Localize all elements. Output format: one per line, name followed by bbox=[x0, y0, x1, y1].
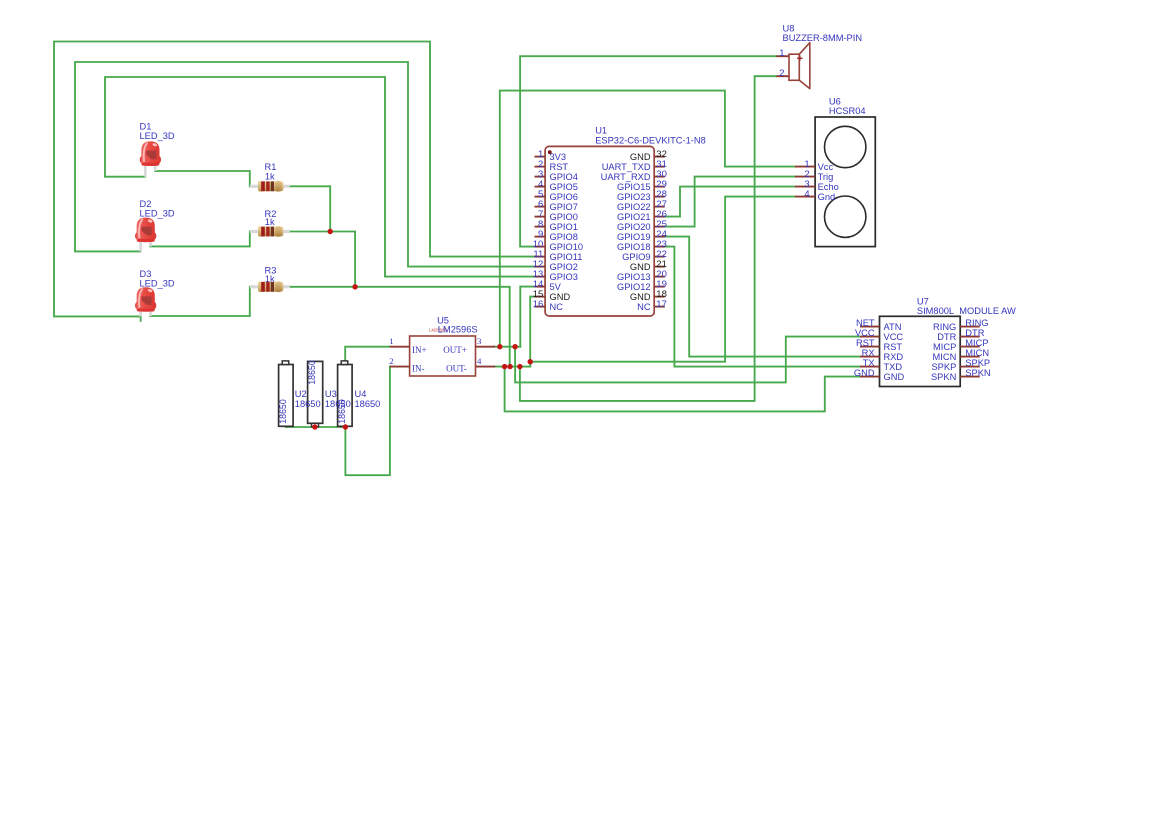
svg-text:U7: U7 bbox=[917, 296, 929, 306]
svg-text:GPIO4: GPIO4 bbox=[550, 172, 578, 182]
svg-text:OUT-: OUT- bbox=[446, 364, 467, 374]
wire 5V rail to HCSR04 Vcc bbox=[500, 91, 795, 347]
junction GND rail / LED common tap bbox=[507, 364, 512, 369]
wire GND rail to HCSR04 Gnd bbox=[530, 197, 795, 362]
svg-text:BUZZER-8MM-PIN: BUZZER-8MM-PIN bbox=[783, 33, 863, 43]
svg-text:SPKN: SPKN bbox=[931, 372, 956, 382]
svg-text:GPIO6: GPIO6 bbox=[550, 192, 578, 202]
svg-text:RING: RING bbox=[965, 318, 988, 328]
svg-text:UART_RXD: UART_RXD bbox=[601, 172, 651, 182]
svg-text:DTR: DTR bbox=[965, 328, 984, 338]
svg-text:SIM800L_MODULE AW: SIM800L_MODULE AW bbox=[917, 306, 1016, 316]
wire OUT- rail (row B) bbox=[494, 366, 530, 368]
LED D1 LED_3D bbox=[140, 122, 175, 177]
svg-text:GPIO3: GPIO3 bbox=[550, 272, 578, 282]
wire OUT+ rail (row A) bbox=[494, 346, 520, 348]
svg-text:MICN: MICN bbox=[933, 352, 957, 362]
svg-text:SPKP: SPKP bbox=[965, 358, 990, 368]
junction 5V rail / SIM800L VCC tap bbox=[512, 344, 517, 349]
svg-text:GPIO15: GPIO15 bbox=[617, 182, 651, 192]
wire D3 anode to GPIO11 (net loop outer) bbox=[54, 42, 535, 317]
LED D3 LED_3D bbox=[135, 269, 175, 322]
svg-text:16: 16 bbox=[533, 299, 544, 310]
svg-text:1: 1 bbox=[389, 336, 393, 346]
wire D2 anode to GPIO2 (net loop middle) bbox=[75, 62, 535, 267]
svg-text:ATN: ATN bbox=[884, 322, 902, 332]
svg-text:18650: 18650 bbox=[278, 399, 288, 424]
wire D2 cathode to R2 bbox=[150, 232, 250, 247]
svg-text:Trig: Trig bbox=[818, 172, 834, 182]
wire D1 anode to GPIO3 (net loop inner) bbox=[105, 77, 535, 277]
junction GND rail / buzzer tap bbox=[517, 364, 522, 369]
junction battery bus / U3 node bbox=[312, 424, 317, 429]
svg-text:OUT+: OUT+ bbox=[443, 345, 467, 355]
battery U4 18650 bbox=[337, 361, 380, 426]
svg-text:U8: U8 bbox=[783, 23, 795, 33]
svg-text:GPIO0: GPIO0 bbox=[550, 212, 578, 222]
module U7 SIM800L_MODULE AW bbox=[854, 296, 1016, 386]
svg-text:D2: D2 bbox=[140, 199, 152, 209]
svg-text:GND: GND bbox=[884, 372, 905, 382]
junction battery bus / U4 node bbox=[343, 424, 348, 429]
svg-text:U3: U3 bbox=[325, 389, 337, 399]
svg-text:U2: U2 bbox=[295, 389, 307, 399]
wire GPIO21 to HCSR04 Echo bbox=[665, 187, 795, 217]
svg-text:NC: NC bbox=[550, 302, 564, 312]
wire LM2596 IN- to battery minus bbox=[345, 367, 390, 476]
svg-text:U1: U1 bbox=[595, 126, 607, 136]
svg-text:DTR: DTR bbox=[937, 332, 956, 342]
svg-text:RST: RST bbox=[856, 338, 875, 348]
svg-text:GPIO1: GPIO1 bbox=[550, 222, 578, 232]
svg-text:SPKP: SPKP bbox=[931, 362, 956, 372]
svg-text:GPIO2: GPIO2 bbox=[550, 262, 578, 272]
svg-text:RING: RING bbox=[933, 322, 956, 332]
resistor R1 1k bbox=[250, 162, 290, 192]
svg-text:GPIO5: GPIO5 bbox=[550, 182, 578, 192]
svg-text:GND: GND bbox=[550, 292, 571, 302]
svg-text:NET: NET bbox=[856, 318, 875, 328]
battery U3 18650 bbox=[307, 360, 351, 427]
svg-text:GPIO8: GPIO8 bbox=[550, 232, 578, 242]
wire 5V pin14 to OUT+ rail bbox=[520, 287, 535, 347]
svg-text:4: 4 bbox=[477, 356, 482, 366]
svg-text:LED_3D: LED_3D bbox=[140, 208, 175, 218]
svg-text:TX: TX bbox=[863, 358, 875, 368]
svg-text:2: 2 bbox=[389, 356, 393, 366]
svg-text:LED_3D: LED_3D bbox=[140, 131, 175, 141]
svg-text:GPIO23: GPIO23 bbox=[617, 192, 651, 202]
svg-text:GPIO10: GPIO10 bbox=[550, 242, 584, 252]
battery U2 18650 bbox=[278, 361, 321, 426]
svg-text:LM2596S: LM2596S bbox=[438, 324, 478, 334]
svg-text:HCSR04: HCSR04 bbox=[829, 106, 866, 116]
wire GPIO18 to SIM800L TXD bbox=[665, 247, 860, 367]
svg-text:GND: GND bbox=[630, 292, 651, 302]
svg-text:GPIO18: GPIO18 bbox=[617, 242, 651, 252]
junction R2/R3 node bbox=[352, 284, 357, 289]
svg-text:5V: 5V bbox=[550, 282, 562, 292]
svg-text:GPIO20: GPIO20 bbox=[617, 222, 651, 232]
wire GPIO19 to SIM800L RXD bbox=[665, 237, 860, 357]
svg-text:IN-: IN- bbox=[412, 364, 425, 374]
svg-text:GPIO19: GPIO19 bbox=[617, 232, 651, 242]
svg-text:UART_TXD: UART_TXD bbox=[602, 162, 651, 172]
wire R3 output / LED common to GND rail bbox=[290, 287, 510, 367]
wire GPIO10 to buzzer pin1 bbox=[520, 56, 776, 246]
junction R1/R2 node bbox=[328, 229, 333, 234]
svg-text:GND: GND bbox=[854, 368, 875, 378]
junction GND rail / HCSR04 Gnd tap bbox=[528, 359, 533, 364]
svg-text:GPIO13: GPIO13 bbox=[617, 272, 651, 282]
buzzer U8 BUZZER-8MM-PIN bbox=[776, 23, 862, 88]
svg-text:18650: 18650 bbox=[307, 360, 317, 385]
svg-text:3: 3 bbox=[477, 336, 482, 346]
svg-text:18650: 18650 bbox=[325, 399, 351, 409]
svg-text:RX: RX bbox=[862, 348, 875, 358]
svg-text:1k: 1k bbox=[265, 217, 275, 227]
wire buzzer pin2 to GND rail bbox=[520, 76, 777, 401]
wire R2 output to R3 junction bbox=[290, 232, 356, 287]
svg-text:18650: 18650 bbox=[355, 399, 381, 409]
svg-text:GND: GND bbox=[630, 152, 651, 162]
wire GPIO20 to HCSR04 Trig bbox=[665, 177, 795, 227]
svg-text:RXD: RXD bbox=[884, 352, 904, 362]
svg-text:18650: 18650 bbox=[295, 399, 321, 409]
svg-text:VCC: VCC bbox=[855, 328, 875, 338]
svg-text:IN+: IN+ bbox=[412, 345, 427, 355]
svg-text:SPKN: SPKN bbox=[965, 368, 990, 378]
svg-text:VCC: VCC bbox=[884, 332, 904, 342]
svg-text:RST: RST bbox=[884, 342, 903, 352]
svg-text:GPIO7: GPIO7 bbox=[550, 202, 578, 212]
wire GND rail to SIM800L GND bbox=[505, 367, 860, 412]
wire D3 cathode to R3 bbox=[150, 287, 250, 316]
wire 5V rail to SIM800L VCC bbox=[515, 337, 860, 383]
svg-text:LED_3D: LED_3D bbox=[140, 279, 175, 289]
svg-text:U4: U4 bbox=[355, 389, 367, 399]
svg-text:D1: D1 bbox=[140, 122, 152, 132]
svg-text:MICP: MICP bbox=[965, 338, 988, 348]
svg-text:2: 2 bbox=[779, 68, 784, 79]
svg-text:Gnd: Gnd bbox=[818, 192, 836, 202]
svg-text:GPIO9: GPIO9 bbox=[622, 252, 650, 262]
wire D1 cathode to R1 bbox=[155, 171, 250, 186]
svg-text:17: 17 bbox=[656, 299, 667, 310]
svg-text:1: 1 bbox=[779, 48, 784, 59]
regulator U5 LM2596S bbox=[389, 315, 495, 376]
svg-text:GPIO22: GPIO22 bbox=[617, 202, 651, 212]
LED D2 LED_3D bbox=[135, 199, 175, 252]
sensor U6 HCSR04 bbox=[795, 96, 875, 246]
wire battery plus to LM2596 IN+ bbox=[345, 347, 390, 361]
junction GND rail / SIM800L GND tap bbox=[502, 364, 507, 369]
svg-text:GPIO11: GPIO11 bbox=[550, 252, 583, 262]
svg-text:D3: D3 bbox=[140, 269, 152, 279]
svg-text:Vcc: Vcc bbox=[818, 162, 834, 172]
svg-text:GND: GND bbox=[630, 262, 651, 272]
wire R1 to R2 junction bbox=[290, 186, 331, 231]
wire GND pin15 to OUT- rail bbox=[530, 297, 535, 367]
svg-text:NC: NC bbox=[637, 302, 651, 312]
svg-text:4: 4 bbox=[804, 189, 809, 200]
resistor R2 1k bbox=[250, 209, 290, 237]
op-amp U1 ESP32-C6-DEVKITC-1-N8 module body bbox=[533, 126, 706, 316]
svg-text:U6: U6 bbox=[829, 96, 841, 106]
svg-text:MICP: MICP bbox=[933, 342, 956, 352]
resistor R3 1k bbox=[250, 265, 290, 292]
junction 5V rail / HCSR04 Vcc tap bbox=[497, 344, 502, 349]
svg-text:ESP32-C6-DEVKITC-1-N8: ESP32-C6-DEVKITC-1-N8 bbox=[595, 136, 706, 146]
wire battery bottom bus bbox=[286, 426, 346, 428]
svg-text:GPIO21: GPIO21 bbox=[617, 212, 651, 222]
svg-text:Echo: Echo bbox=[818, 182, 839, 192]
svg-text:MICN: MICN bbox=[965, 348, 989, 358]
svg-text:3V3: 3V3 bbox=[550, 152, 567, 162]
svg-text:TXD: TXD bbox=[884, 362, 903, 372]
svg-text:1k: 1k bbox=[265, 171, 275, 181]
svg-text:RST: RST bbox=[550, 162, 569, 172]
svg-text:GPIO12: GPIO12 bbox=[617, 282, 651, 292]
